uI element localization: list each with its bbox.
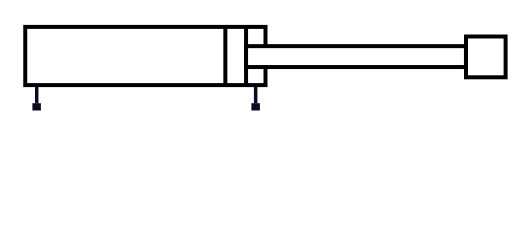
cylinder barrel (25, 27, 265, 85)
rod end block (466, 37, 506, 78)
mounting foot right: stem (254, 85, 258, 103)
piston plate line 2 (244, 27, 248, 85)
mounting foot left: stem (35, 85, 38, 103)
piston rod (246, 46, 466, 67)
mounting foot right: base block (251, 103, 260, 110)
piston plate line 1 (223, 27, 227, 85)
mounting foot left: base block (32, 103, 41, 110)
